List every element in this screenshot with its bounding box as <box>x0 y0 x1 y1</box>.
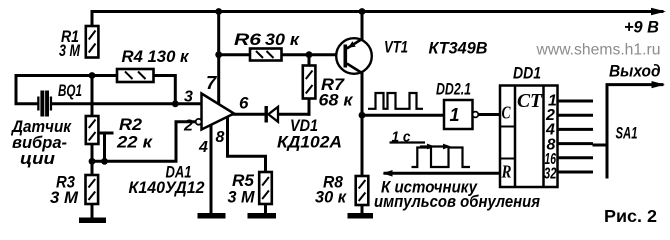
counter DD1 pin labels <box>501 90 557 183</box>
junction R2 tap node <box>101 158 108 165</box>
wire R7 leads <box>308 55 311 115</box>
junction rail / pin7 branch <box>215 8 222 15</box>
svg-text:30 к: 30 к <box>315 189 348 207</box>
svg-text:VT1: VT1 <box>384 39 408 57</box>
wire pin 8 to R5 <box>228 112 266 172</box>
svg-text:КД102А: КД102А <box>277 134 342 152</box>
svg-text:DD1: DD1 <box>513 64 541 83</box>
svg-text:30 к: 30 к <box>265 31 301 49</box>
svg-text:Выход: Выход <box>609 62 661 81</box>
wire R6 leads <box>219 53 309 56</box>
svg-text:3 М: 3 М <box>59 42 81 60</box>
svg-text:6: 6 <box>239 94 249 113</box>
svg-text:7: 7 <box>206 72 218 93</box>
svg-text:импульсов обнуления: импульсов обнуления <box>374 193 540 211</box>
svg-text:DD2.1: DD2.1 <box>436 81 471 99</box>
diode VD1 <box>265 106 279 123</box>
svg-text:ции: ции <box>20 150 55 168</box>
junction R4 / pin3 wire <box>172 100 179 107</box>
wire R8 leads <box>361 115 364 213</box>
wire node to pin 2 <box>92 122 196 162</box>
transistor VT1 <box>336 38 372 74</box>
wire +9V top rail <box>92 12 662 27</box>
junction R2/R3 node <box>89 158 96 165</box>
svg-text:К140УД12: К140УД12 <box>129 179 205 197</box>
svg-text:КТ349В: КТ349В <box>429 40 488 58</box>
svg-text:3 М: 3 М <box>50 189 79 207</box>
resistor R3 3M <box>86 175 99 204</box>
node X junction R1/R4/R2 <box>89 72 96 79</box>
wire op-amp output to diode and up to R7 <box>233 99 309 115</box>
svg-text:+9 В: +9 В <box>624 18 659 37</box>
junction R6/R7/base <box>306 51 313 58</box>
wire node X left to rail and down to BQ1 <box>16 76 92 104</box>
wire pin 7 supply <box>217 12 220 108</box>
arrow +9V <box>651 8 666 15</box>
resistor R4 130k <box>117 69 154 82</box>
wire R5 bottom <box>264 204 267 213</box>
resistor R1 3M <box>86 26 99 58</box>
arrow output <box>652 81 666 88</box>
svg-text:SA1: SA1 <box>616 125 638 143</box>
svg-text:2: 2 <box>183 118 193 135</box>
1s pulse annotation <box>390 143 471 168</box>
wire SA1 wiper <box>594 144 607 147</box>
wire transistor base <box>309 53 344 56</box>
pulse train at VT1 collector <box>368 93 423 109</box>
svg-text:CT: CT <box>517 90 543 112</box>
arrow to reset source <box>383 170 393 177</box>
op-amp DA1 triangle <box>202 94 235 130</box>
wire BQ1 to op-amp pin 3 <box>52 102 202 105</box>
junction pin7 / R6 <box>215 51 222 58</box>
svg-text:R4 130 к: R4 130 к <box>122 48 191 66</box>
svg-text:BQ1: BQ1 <box>58 82 82 100</box>
svg-text:C: C <box>502 103 512 123</box>
wire node X to R2 vertical <box>91 76 94 117</box>
svg-text:R2: R2 <box>119 116 142 134</box>
svg-text:3: 3 <box>184 89 193 106</box>
op-amp inverting input bubble <box>196 119 202 125</box>
ground under R3 <box>79 218 106 224</box>
wire reset to DD1 R <box>385 172 500 175</box>
junction rail / VT1 emitter <box>359 8 366 15</box>
svg-text:22 к: 22 к <box>116 134 154 152</box>
svg-text:1 с: 1 с <box>392 129 412 146</box>
svg-text:R6: R6 <box>234 31 262 49</box>
svg-text:R5: R5 <box>232 172 255 190</box>
svg-text:32: 32 <box>544 166 557 183</box>
ground under R5 <box>248 213 277 219</box>
ground under op-amp pin 4 <box>198 213 226 219</box>
piezo sensor BQ1 <box>37 91 52 117</box>
wire DD2.1 out to DD1 C <box>478 113 500 116</box>
wire R3 leads <box>91 161 94 217</box>
svg-text:1: 1 <box>450 105 460 125</box>
wire R4 row <box>92 76 175 104</box>
svg-text:8: 8 <box>216 129 225 146</box>
svg-text:68 к: 68 к <box>319 92 355 110</box>
logic gate DD2.1 <box>444 100 478 129</box>
wire collector down and to DD2.1 <box>362 73 444 115</box>
ground under R8 <box>348 213 374 219</box>
svg-text:3 М: 3 М <box>228 189 256 207</box>
wire pin 4 to ground <box>210 120 213 213</box>
svg-text:VD1: VD1 <box>290 117 318 135</box>
wire DD1 output stubs <box>558 101 592 172</box>
svg-text:R: R <box>501 162 512 182</box>
svg-text:Рис. 2: Рис. 2 <box>604 206 657 226</box>
svg-text:www.shems.h1.ru: www.shems.h1.ru <box>535 42 660 59</box>
resistor R2 22k <box>86 116 99 144</box>
resistor R8 30k <box>356 176 369 205</box>
counter DD1 box <box>500 86 558 188</box>
svg-text:4: 4 <box>198 139 208 156</box>
resistor R5 3M <box>259 172 272 204</box>
resistor R7 68k <box>303 66 316 99</box>
junction collector / R8 <box>359 112 366 119</box>
wire SA1 pole <box>607 85 662 177</box>
resistor R6 30k <box>250 49 282 61</box>
wire R2 bottom to node <box>91 144 94 161</box>
wire emitter to rail <box>361 12 364 40</box>
wire R2 tap <box>95 133 112 161</box>
